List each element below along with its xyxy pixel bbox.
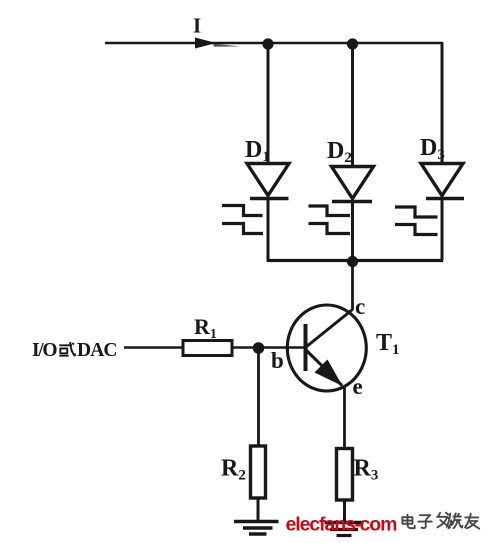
label R2 [221,456,246,484]
wire D1 anode [267,43,270,163]
wire R1 to base node [232,346,260,349]
LED arrows D2 [309,206,351,234]
svg-text:elecfans-com: elecfans-com [286,514,398,536]
node junction D1/bus [262,38,273,49]
label I [193,14,201,38]
wire emitter to R3 [343,386,346,448]
resistor R1 [183,341,232,356]
diode D2 [332,167,374,199]
wire base [258,346,306,349]
wire right corner to D3 [441,43,444,162]
node junction collector/bus [347,256,358,267]
watermark chinese 电子发烧友 [402,513,479,529]
label D3 [420,135,445,163]
label R3 [354,456,379,484]
wire node to R2 [257,348,260,446]
wire D2 anode [351,43,354,166]
wire D1 cathode [267,198,270,262]
svg-text:DAC: DAC [77,340,118,361]
cathode bar D3 [426,197,464,201]
label D1 [245,137,270,165]
wire top bus [105,42,443,45]
resistor R3 [337,449,353,501]
wire bottom bus [268,259,443,262]
wire input [124,346,183,348]
svg-text:D1: D1 [245,137,270,165]
wire R3 to ground [343,500,346,521]
wire R2 to ground [257,498,260,521]
label e [353,374,363,399]
wire D3 cathode [441,198,444,261]
svg-text:D2: D2 [327,138,352,166]
wire collector [351,260,354,310]
svg-text:R1: R1 [194,314,217,342]
current arrow I [195,38,240,49]
label R1 [194,314,217,342]
ground R2 [234,522,279,535]
cathode bar D1 [250,197,289,201]
ground R3 [325,523,364,536]
label c [355,294,365,319]
elecfans.com logo [286,514,398,536]
LED arrows D3 [395,207,438,235]
svg-text:T1: T1 [376,330,400,358]
resistor R2 [251,446,266,498]
cathode bar D2 [332,200,372,204]
node junction D2/bus [347,38,358,49]
svg-text:c: c [355,294,365,319]
label b [271,348,284,373]
diode D1 [247,164,289,196]
svg-text:R2: R2 [221,456,246,484]
svg-text:I/O: I/O [32,340,58,361]
label I/O or DAC [32,340,118,361]
svg-text:e: e [353,374,363,399]
node junction base [253,342,265,354]
diode D3 [421,164,463,196]
label T1 [376,330,400,358]
svg-text:b: b [271,348,284,373]
transistor T1 [287,305,366,391]
LED arrows D1 [222,206,263,234]
label D2 [327,138,352,166]
svg-text:R3: R3 [354,456,379,484]
svg-text:I: I [193,14,201,38]
wire D2 cathode [351,201,354,262]
